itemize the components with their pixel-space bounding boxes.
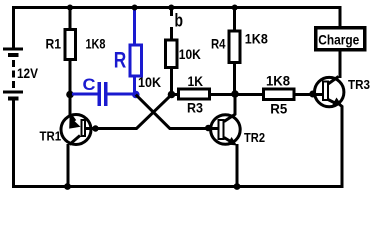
wire node A cross-coupling to TR2 base: [136, 95, 219, 129]
node dot A (blue): [132, 91, 140, 99]
svg-text:R: R: [114, 48, 127, 73]
wire R1 bottom lead: [69, 61, 72, 96]
capacitor C (blue): [98, 82, 102, 106]
junction dot TR3 base: [309, 91, 316, 98]
junction dot top rail R4: [232, 5, 238, 11]
node dot C (R3/R4/R5/TR2): [231, 90, 239, 98]
svg-text:1K8: 1K8: [86, 36, 106, 52]
transistor TR1 (PNP): [61, 114, 91, 145]
resistor R5: [264, 89, 295, 100]
wire blue R top lead: [133, 9, 136, 45]
wire 10K(b) resistor mid lead: [170, 27, 173, 39]
wire R1 top lead: [69, 9, 72, 28]
svg-text:b: b: [175, 11, 184, 31]
wire left upper (battery to top rail): [12, 6, 15, 48]
resistor R3: [179, 89, 210, 99]
wire 10K(b) resistor top lead: [170, 9, 173, 16]
wire TR2 emitter bottom: [236, 144, 239, 187]
resistor R1: [65, 30, 76, 60]
svg-text:1K8: 1K8: [266, 73, 290, 89]
junction dot top rail blue R: [132, 5, 138, 11]
wire capacitor right lead (blue): [108, 93, 134, 96]
junction dot TR1-bottom rail: [64, 183, 71, 190]
wire R3 left lead: [172, 93, 179, 96]
wire TR1 base / cross-coupling to node B: [86, 95, 172, 129]
transistor TR2 (NPN): [211, 114, 241, 146]
svg-text:R5: R5: [270, 101, 287, 117]
wire charge box top lead: [339, 9, 342, 27]
wire R4 top lead: [233, 9, 236, 31]
wire blue R bottom lead: [133, 76, 136, 94]
wire 10K(b) bottom lead: [170, 68, 173, 94]
node dot (R1/C/TR1 junction): [66, 91, 74, 99]
svg-text:R3: R3: [187, 100, 203, 116]
wire R5 right lead (to TR3 base): [294, 93, 322, 96]
charge box: [316, 28, 365, 50]
wire capacitor left lead (blue): [72, 93, 98, 96]
svg-text:1K8: 1K8: [245, 31, 268, 47]
resistor R4: [229, 31, 240, 63]
svg-text:R1: R1: [46, 36, 62, 52]
svg-text:Charge: Charge: [318, 32, 359, 48]
transistor TR3 (NPN): [315, 77, 344, 107]
svg-text:10K: 10K: [179, 46, 201, 62]
wire TR1 emitter bottom: [67, 144, 70, 187]
junction dot top rail R1: [67, 5, 73, 11]
svg-text:C: C: [83, 75, 96, 94]
wire R5 left lead: [236, 93, 262, 96]
svg-text:10K: 10K: [138, 74, 161, 90]
svg-text:TR2: TR2: [244, 130, 265, 145]
svg-text:R4: R4: [211, 36, 226, 52]
svg-text:12V: 12V: [17, 65, 39, 81]
svg-text:1K: 1K: [188, 73, 204, 89]
node dot B: [168, 91, 176, 99]
wire charge box bottom lead (to TR3 collector): [339, 49, 342, 78]
wire R4 bottom lead: [233, 63, 236, 94]
resistor R (blue): [130, 45, 142, 76]
battery B1 12V: [3, 48, 23, 101]
wire left lower (battery to bottom rail): [12, 101, 15, 189]
junction dot TR2-bottom rail: [234, 183, 241, 190]
wire TR3 emitter to bottom rail: [339, 104, 342, 187]
svg-text:TR3: TR3: [348, 77, 370, 92]
wire TR2 collector top: [234, 96, 237, 115]
wire R3 right lead: [211, 93, 236, 96]
svg-text:TR1: TR1: [40, 129, 62, 144]
wire TR1 emitter top: [69, 96, 72, 116]
wire top rail: [12, 6, 342, 9]
wire bottom rail: [12, 185, 344, 188]
junction dot TR1 base: [92, 125, 98, 131]
resistor 10K (b): [166, 40, 178, 68]
junction dot TR2 base: [205, 125, 212, 132]
junction dot top rail 10K(b): [168, 5, 174, 11]
